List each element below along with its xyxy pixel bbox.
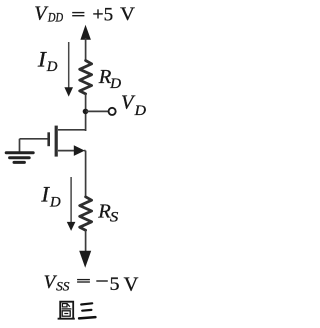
label VSS = -5 V — [44, 272, 139, 295]
label ID (upper current) — [37, 46, 58, 75]
svg-text:D: D — [49, 194, 61, 210]
svg-text:V: V — [120, 4, 135, 25]
MOSFET Q1 gate lead — [20, 138, 48, 140]
wire to VD terminal — [86, 110, 108, 112]
ground bar 2 — [10, 156, 30, 159]
svg-text:DD: DD — [47, 11, 63, 25]
ground stem — [19, 139, 21, 152]
svg-text:V: V — [124, 275, 139, 296]
caption: CJK character tu (figure) drawn as paths — [58, 302, 75, 319]
caption: CJK character san (three) drawn as paths — [79, 303, 95, 318]
label VD — [121, 92, 146, 119]
ground bar 1 — [6, 151, 33, 154]
current arrow ID upper (down) — [64, 42, 73, 97]
svg-text:D: D — [46, 59, 58, 75]
label RD — [98, 66, 122, 92]
ground bar 3 — [14, 161, 24, 164]
svg-text:5: 5 — [104, 4, 114, 25]
svg-text:5: 5 — [110, 274, 120, 295]
resistor RD — [80, 61, 92, 94]
wire from supply arrow to RD — [85, 38, 87, 61]
resistor RS — [80, 197, 92, 230]
svg-text:D: D — [134, 103, 147, 119]
wire source to RS — [85, 151, 87, 197]
current arrow ID lower (down) — [67, 177, 76, 231]
label ID (lower current) — [40, 181, 61, 210]
terminal VD (open circle) — [109, 108, 116, 115]
junction node dot — [83, 109, 89, 115]
MOSFET Q1 channel bar — [55, 126, 58, 157]
label VDD = +5 V — [34, 2, 135, 25]
MOSFET Q1 gate bar — [47, 132, 50, 146]
wire RD to drain — [85, 94, 87, 131]
supply arrow up to VDD — [80, 25, 91, 40]
wire RS to VSS arrow — [85, 230, 87, 251]
svg-text:S: S — [110, 209, 118, 225]
MOSFET Q1 source lead with arrow — [58, 145, 86, 156]
svg-text:SS: SS — [56, 279, 70, 294]
svg-text:D: D — [109, 76, 121, 92]
MOSFET Q1 drain lead — [58, 129, 86, 131]
supply arrow down to VSS — [79, 251, 91, 268]
label RS — [97, 201, 118, 226]
